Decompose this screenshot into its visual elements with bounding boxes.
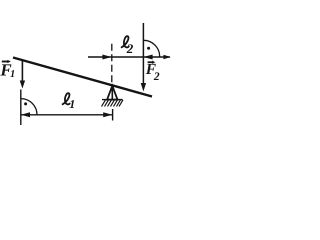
right-angle dot (left) — [24, 102, 27, 105]
l1 right extension tick — [112, 109, 114, 121]
F2 arrowhead (down, tip on rod) — [141, 83, 146, 92]
right-angle arc (left, between F1 line and l1) — [21, 99, 37, 115]
dimension line l2 (with overruns) — [88, 56, 170, 58]
label F1 with vector hat — [0, 60, 15, 80]
F1 line-of-action extension line — [20, 90, 22, 126]
l1 right arrowhead — [103, 112, 112, 117]
l2 left arrowhead (points right at dashed line) — [102, 55, 111, 60]
label l1 — [63, 93, 76, 111]
label l2 — [122, 36, 134, 56]
l1 left arrowhead — [21, 112, 30, 117]
dashed extension line above fulcrum — [111, 44, 113, 83]
right-angle dot (right) — [147, 47, 150, 50]
force F2 line of action (vertical) — [142, 23, 144, 85]
force F1 arrow (down from left end of rod) — [20, 60, 25, 89]
right end arrowhead of horizontal ray — [163, 55, 170, 59]
lever rod — [13, 58, 152, 97]
svg-text:1: 1 — [10, 69, 15, 80]
dimension line l1 — [21, 114, 113, 116]
fulcrum center pin stroke — [111, 86, 113, 100]
label F2 with vector hat — [145, 61, 160, 83]
svg-text:2: 2 — [126, 41, 134, 56]
right-angle arc (right, between F2 line and horizontal ray) — [143, 40, 159, 56]
ground line under fulcrum — [102, 99, 123, 101]
svg-text:2: 2 — [153, 71, 160, 83]
fulcrum triangle support — [107, 86, 117, 100]
svg-text:1: 1 — [69, 97, 75, 111]
ground hatching — [102, 100, 124, 107]
l2 right arrowhead (points left at F2 line) — [143, 55, 152, 60]
